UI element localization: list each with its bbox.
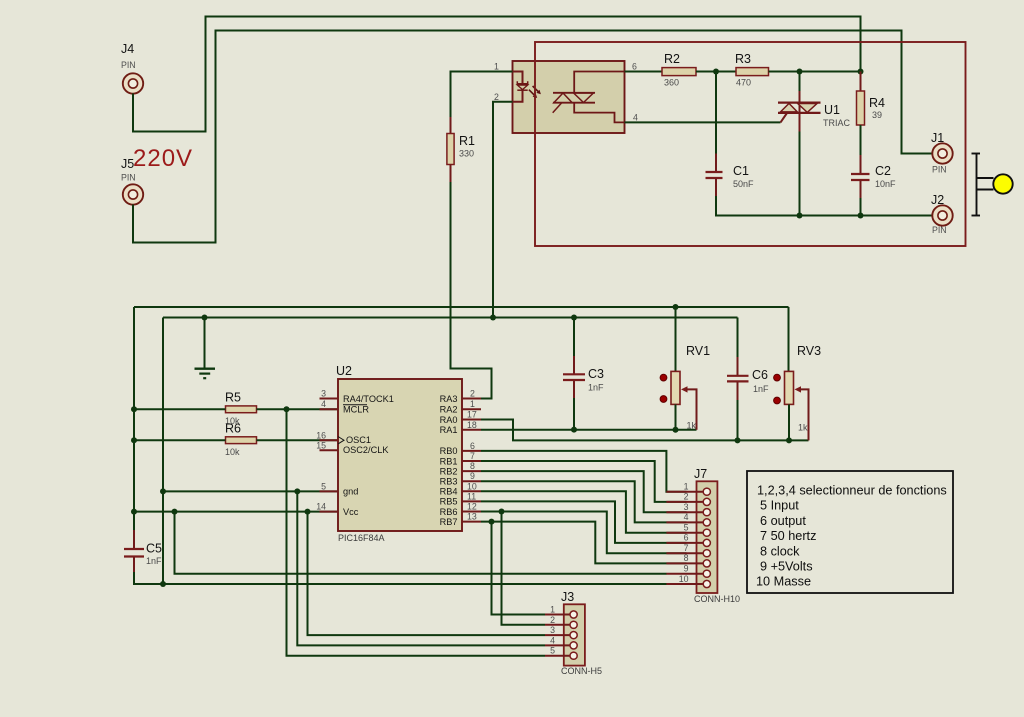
svg-text:J7: J7 (694, 467, 707, 481)
connector J7 (694, 467, 740, 604)
svg-text:R3: R3 (735, 52, 751, 66)
svg-text:10nF: 10nF (875, 179, 896, 189)
svg-text:8: 8 (684, 553, 689, 563)
svg-text:J3: J3 (561, 590, 574, 604)
svg-text:360: 360 (664, 78, 679, 88)
junction C1 top (713, 69, 719, 75)
svg-text:5 Input: 5 Input (760, 499, 799, 513)
svg-text:1: 1 (550, 605, 555, 615)
svg-text:OSC1: OSC1 (346, 435, 371, 445)
svg-text:39: 39 (872, 110, 882, 120)
wire R5 to MCLR (257, 408, 340, 410)
lamp (993, 174, 1012, 193)
wire +5V to J7 pin9 (175, 512, 667, 574)
svg-text:8 clock: 8 clock (760, 544, 800, 558)
resistor R3 (735, 52, 769, 88)
svg-text:1k: 1k (798, 423, 808, 433)
svg-text:5: 5 (550, 646, 555, 656)
wire C5 bottom to ground rail (134, 557, 667, 584)
wire RB7 junction to J3 pin1 (492, 522, 546, 615)
svg-text:1,2,3,4 selectionneur de fonct: 1,2,3,4 selectionneur de fonctions (757, 484, 947, 498)
wire MCLR junction to J3 pin5 (287, 409, 546, 655)
svg-text:1: 1 (470, 399, 475, 409)
opto LED (513, 72, 528, 102)
resistor R5 (225, 391, 257, 427)
svg-text:R6: R6 (225, 422, 241, 436)
svg-text:OSC2/CLK: OSC2/CLK (343, 445, 389, 455)
connector J5 label (121, 157, 136, 183)
wire R3 to R4 node (769, 71, 861, 73)
junction gnd wire on ground vertical (160, 488, 166, 494)
svg-text:R4: R4 (869, 96, 885, 110)
svg-text:9 +5Volts: 9 +5Volts (760, 560, 813, 574)
svg-text:2: 2 (494, 92, 499, 102)
svg-text:6 output: 6 output (760, 514, 806, 528)
svg-text:TRIAC: TRIAC (823, 118, 851, 128)
connector J1 (932, 143, 952, 163)
svg-text:9: 9 (684, 564, 689, 574)
wire ground left vertical (162, 318, 164, 585)
svg-text:RA3: RA3 (440, 394, 458, 404)
junction R6 on +5V vertical (131, 437, 137, 443)
svg-text:3: 3 (321, 389, 326, 399)
svg-text:R2: R2 (664, 52, 680, 66)
svg-text:7 50 hertz: 7 50 hertz (760, 529, 816, 543)
svg-text:470: 470 (736, 78, 751, 88)
svg-text:14: 14 (316, 502, 326, 512)
junction RV1 bottom (673, 427, 679, 433)
wire gate from opto pin4 (625, 113, 788, 122)
junction Vcc to J3 pin3 (305, 509, 311, 515)
svg-text:12: 12 (467, 502, 477, 512)
IC U2 (336, 364, 462, 543)
svg-text:17: 17 (467, 410, 477, 420)
svg-text:PIN: PIN (932, 225, 947, 235)
resistor R4 (857, 72, 886, 126)
svg-text:7: 7 (470, 451, 475, 461)
svg-text:CONN-H5: CONN-H5 (561, 666, 602, 676)
wire RB7 to J7 pin8 (481, 522, 687, 564)
resistor R1 (447, 134, 475, 165)
capacitor C1 (706, 164, 755, 189)
svg-text:2: 2 (550, 615, 555, 625)
wire ground bus horizontal (163, 317, 738, 319)
U2 right pin numbers (467, 389, 477, 522)
wire R6 to OSC1 (257, 439, 340, 441)
svg-text:6: 6 (632, 62, 637, 72)
svg-text:4: 4 (633, 113, 638, 123)
wire C1 bottom (716, 179, 932, 216)
J7 pin stubs (666, 492, 703, 584)
svg-text:7: 7 (684, 543, 689, 553)
junction Vcc on +5V vertical (131, 509, 137, 515)
svg-text:RB1: RB1 (440, 456, 458, 466)
svg-text:J4: J4 (121, 42, 134, 56)
svg-text:11: 11 (467, 491, 476, 501)
junction ground symbol (202, 315, 208, 321)
junction RV1 top (673, 304, 679, 310)
junction C3 bottom (571, 427, 577, 433)
svg-text:U1: U1 (824, 103, 840, 117)
wire gnd junction to J3 pin4 (297, 491, 545, 645)
svg-text:10 Masse: 10 Masse (756, 575, 811, 589)
svg-text:16: 16 (316, 430, 326, 440)
junction Vcc to J7 pin9 (172, 509, 178, 515)
svg-text:1nF: 1nF (588, 383, 604, 393)
U2 left pin numbers (316, 389, 326, 512)
capacitor C2 (851, 164, 896, 189)
connector J4 label (121, 42, 136, 70)
wire +5V left vertical (133, 307, 135, 549)
svg-text:5: 5 (321, 482, 326, 492)
ground (195, 318, 216, 379)
svg-text:8: 8 (470, 461, 475, 471)
svg-text:15: 15 (316, 441, 326, 451)
optocoupler box (513, 61, 625, 133)
svg-text:3: 3 (550, 625, 555, 635)
wire Vcc junction to J3 pin3 (308, 512, 546, 635)
wire RB1 to J7 pin2 (481, 461, 687, 502)
wire +5V bus horizontal (134, 306, 789, 308)
J3 pin circles (570, 611, 577, 659)
junction C2 bottom (858, 213, 864, 219)
wire R6 left (134, 439, 226, 441)
svg-text:PIC16F84A: PIC16F84A (338, 533, 385, 543)
svg-text:6: 6 (470, 441, 475, 451)
svg-text:1k: 1k (687, 421, 697, 431)
svg-text:R5: R5 (225, 391, 241, 405)
wire RB6 junction to J3 pin2 (502, 512, 546, 625)
junction C6 bottom (735, 437, 741, 443)
svg-text:RA2: RA2 (440, 405, 458, 415)
svg-text:C2: C2 (875, 164, 891, 178)
wire C2 bottom (860, 181, 862, 216)
svg-text:gnd: gnd (343, 487, 358, 497)
svg-text:330: 330 (459, 149, 474, 159)
svg-text:RA1: RA1 (440, 425, 458, 435)
connector J2 (932, 205, 952, 225)
wire R1 top to opto pin1 (451, 72, 513, 118)
connector J1 label (931, 131, 947, 175)
svg-text:RA0: RA0 (440, 415, 458, 425)
svg-text:4: 4 (684, 512, 689, 522)
svg-text:3: 3 (684, 502, 689, 512)
svg-text:RA4/TOCK1: RA4/TOCK1 (343, 394, 394, 404)
wire RB4 to J7 pin5 (481, 491, 687, 532)
junction triac bottom (797, 213, 803, 219)
capacitor C5 (124, 530, 162, 566)
opto light arrows (529, 86, 541, 98)
svg-text:RB7: RB7 (440, 517, 458, 527)
svg-text:RB3: RB3 (440, 477, 458, 487)
capacitor C3 (563, 318, 604, 430)
svg-text:9: 9 (470, 471, 475, 481)
resistor R2 (662, 52, 696, 88)
svg-text:220V: 220V (133, 145, 193, 172)
junction ground vertical on bottom rail (160, 581, 166, 587)
svg-text:C6: C6 (752, 368, 768, 382)
junction R4 top (858, 69, 864, 75)
wire R5 left (134, 408, 226, 410)
wire opto pin6 to R2 (625, 71, 663, 73)
svg-text:Vcc: Vcc (343, 507, 359, 517)
connector J2 label (931, 193, 947, 235)
capacitor C6 (727, 318, 769, 441)
connector J3 (561, 590, 602, 676)
svg-text:4: 4 (550, 635, 555, 645)
svg-text:10: 10 (679, 574, 689, 584)
svg-text:J5: J5 (121, 157, 134, 171)
wire J5 to J1 (133, 31, 932, 243)
junction MCLR to J3 pin5 (284, 406, 290, 412)
junction C3 top (571, 315, 577, 321)
svg-text:2: 2 (684, 492, 689, 502)
legend text (756, 484, 947, 589)
svg-text:U2: U2 (336, 364, 352, 378)
svg-text:C5: C5 (146, 542, 162, 556)
wire J4 to top bus (133, 17, 861, 132)
svg-text:PIN: PIN (932, 165, 947, 175)
svg-text:10k: 10k (225, 447, 240, 457)
junction R5 on +5V vertical (131, 406, 137, 412)
lamp terminals bracket (972, 154, 994, 216)
svg-text:1nF: 1nF (146, 556, 162, 566)
wire RB2 to J7 pin3 (481, 471, 687, 512)
svg-text:RB4: RB4 (440, 487, 458, 497)
wire RB5 to J7 pin6 (481, 501, 687, 543)
junction triac top (797, 69, 803, 75)
J7 pin circles (703, 488, 710, 588)
opto photo-triac (553, 72, 625, 123)
J7 pin numbers (679, 482, 689, 584)
svg-text:1nF: 1nF (753, 384, 769, 394)
wire Vcc pin (134, 511, 339, 513)
svg-text:R1: R1 (459, 134, 475, 148)
wire RA0 to C6/RV3 (481, 420, 809, 441)
svg-text:RB2: RB2 (440, 466, 458, 476)
svg-text:1: 1 (684, 482, 689, 492)
wire R1 bottom to U2 RA3 (450, 165, 452, 183)
svg-text:2: 2 (470, 389, 475, 399)
potentiometer RV1 (660, 307, 710, 431)
wire RB0 to J7 pin1 (481, 451, 687, 492)
U2 right pin names (440, 394, 458, 527)
svg-text:C1: C1 (733, 164, 749, 178)
svg-text:50nF: 50nF (733, 179, 754, 189)
svg-text:RB0: RB0 (440, 446, 458, 456)
junction opto pin2 on ground bus (490, 315, 496, 321)
potentiometer RV3 (774, 307, 822, 440)
legend box (747, 471, 953, 593)
wire RB3 to J7 pin4 (481, 481, 687, 522)
svg-text:PIN: PIN (121, 60, 136, 70)
svg-text:18: 18 (467, 420, 477, 430)
wire R2 to R3 (696, 71, 736, 73)
triac U1 (778, 72, 851, 216)
svg-text:CONN-H10: CONN-H10 (694, 594, 740, 604)
svg-text:13: 13 (467, 512, 477, 522)
svg-text:10: 10 (467, 481, 477, 491)
U2 left pin stubs (320, 399, 339, 512)
wire R4 to C2 (860, 125, 862, 174)
svg-text:4: 4 (321, 399, 326, 409)
J3 pin numbers (550, 605, 555, 656)
svg-text:RB5: RB5 (440, 497, 458, 507)
wire RA1 to C3/RV1 (481, 429, 697, 431)
wire C1 vertical (715, 72, 717, 172)
connector J5 (123, 184, 143, 204)
enclosure box (triac section) (535, 42, 966, 246)
svg-text:6: 6 (684, 533, 689, 543)
wire gnd pin (163, 490, 339, 492)
svg-text:C3: C3 (588, 367, 604, 381)
svg-text:RB6: RB6 (440, 507, 458, 517)
connector J4 (123, 73, 143, 93)
svg-text:1: 1 (494, 62, 499, 72)
junction RV3 bottom (786, 437, 792, 443)
svg-text:PIN: PIN (121, 173, 136, 183)
svg-text:RV3: RV3 (797, 344, 821, 358)
J3 pin stubs (545, 615, 570, 656)
U2 left pin names (338, 394, 394, 517)
junction RB7 to J3 pin1 (489, 519, 495, 525)
junction RB6 to J3 pin2 (499, 509, 505, 515)
wire opto pin2 to ground bus (493, 102, 513, 318)
U2 right pin stubs (462, 399, 481, 522)
svg-text:RV1: RV1 (686, 344, 710, 358)
resistor R6 (225, 422, 257, 458)
junction gnd wire to J3 pin4 (294, 488, 300, 494)
wire RB6 to J7 pin7 (481, 512, 687, 554)
svg-text:5: 5 (684, 523, 689, 533)
svg-text:MCLR: MCLR (343, 405, 369, 415)
